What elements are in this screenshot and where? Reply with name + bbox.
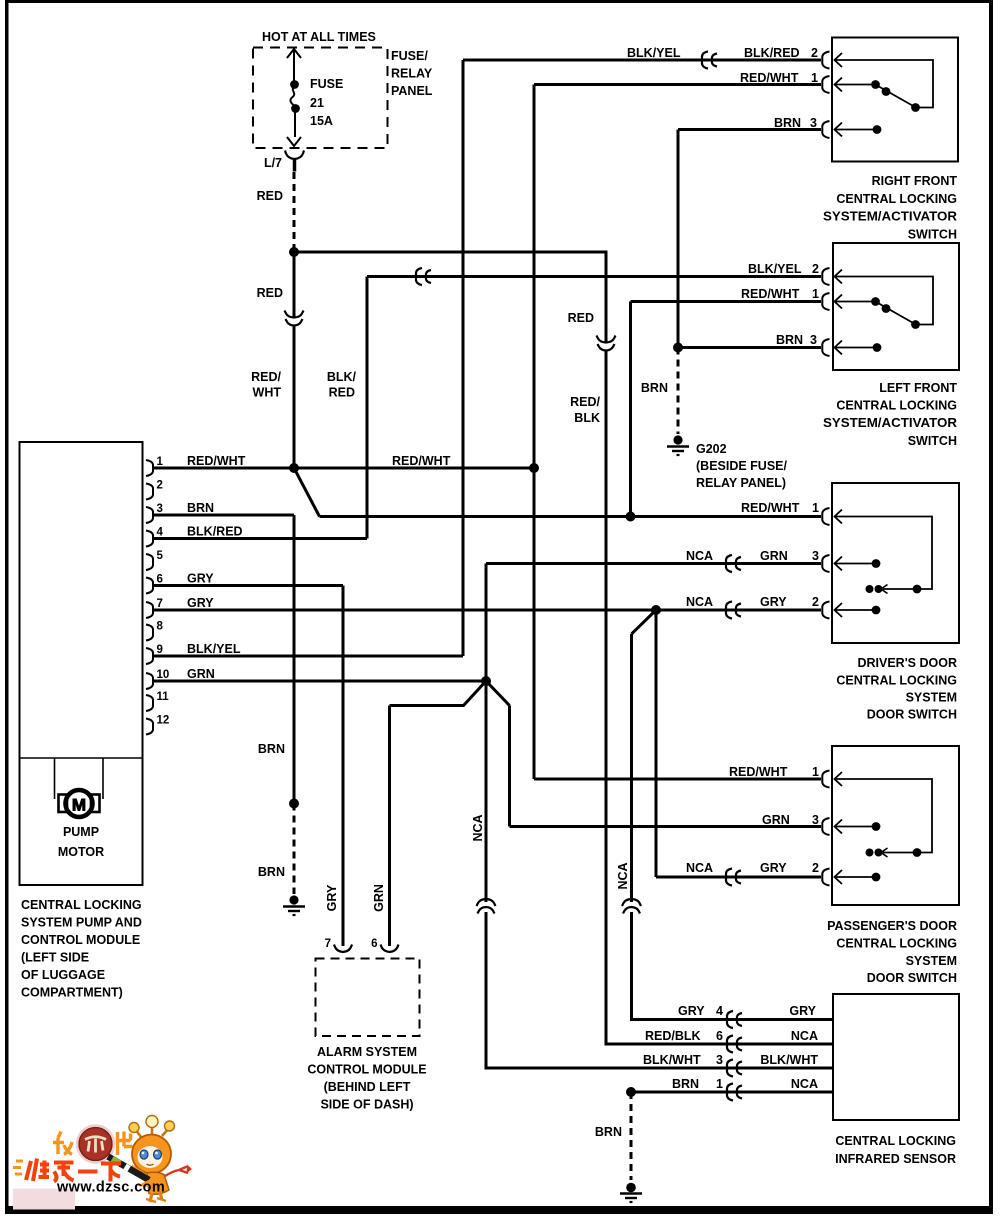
svg-text:5: 5	[157, 550, 164, 562]
wire BRN dashed to sensor ground	[630, 1092, 633, 1180]
glyph zhao (find) orange strokes	[53, 1132, 72, 1155]
svg-text:BLK/: BLK/	[327, 370, 357, 384]
svg-text:RED/WHT: RED/WHT	[741, 287, 800, 301]
wire GRY pump pin6 horizontal	[152, 584, 343, 587]
wire BRN dashed to pump ground	[293, 804, 296, 895]
connector on RED vertical x294	[285, 311, 304, 326]
svg-text:2: 2	[812, 861, 819, 875]
svg-text:GRY: GRY	[678, 1004, 705, 1018]
svg-text:3: 3	[810, 116, 817, 130]
svg-text:RED/: RED/	[570, 395, 600, 409]
wire RED horizontal from junction to x606	[294, 251, 608, 254]
svg-text:LEFT FRONT: LEFT FRONT	[879, 381, 957, 395]
wire GRN diagonal down-left from pin10 junction	[390, 681, 487, 706]
svg-text:RED/WHT: RED/WHT	[740, 71, 799, 85]
svg-text:3: 3	[812, 813, 819, 827]
svg-text:CENTRAL LOCKING: CENTRAL LOCKING	[836, 937, 957, 951]
SWITCH PIN BRACKETS AND ARROWS	[822, 52, 842, 886]
svg-text:GRN: GRN	[372, 884, 386, 912]
pin 7 socket	[146, 602, 153, 618]
node BRN sensor ground junction	[626, 1087, 636, 1097]
wire GRY pump pin7 horizontal to driver's door pin2	[152, 609, 821, 612]
svg-text:FUSE: FUSE	[310, 77, 343, 91]
pin 6 socket	[146, 578, 153, 594]
wire RED/WHT vertical below connector to pin1 junction	[293, 326, 296, 468]
passenger pin 2 bracket and arrow	[822, 869, 829, 886]
svg-text:10: 10	[157, 669, 170, 681]
weiku yixia red characters	[26, 1159, 121, 1182]
wire NCA vertical x486 down to connector	[485, 681, 488, 902]
svg-text:BLK/YEL: BLK/YEL	[187, 642, 241, 656]
pin 9 socket	[146, 648, 153, 664]
svg-text:GRN: GRN	[187, 667, 215, 681]
svg-text:PANEL: PANEL	[391, 84, 433, 98]
connector on GRY sensor wire	[727, 1011, 742, 1028]
wire GRN vertical x486 up to driver's door pin3 line	[485, 564, 488, 682]
ground sensor BRN	[620, 1183, 642, 1202]
pin 2 socket	[146, 484, 153, 500]
node GRY junction	[651, 605, 661, 615]
wire diagonal RED/WHT junction to driver's door line	[294, 468, 320, 517]
svg-text:4: 4	[716, 1004, 723, 1018]
wire RED/WHT vertical x534 right-front pin1 down to passenger pin1	[533, 85, 536, 780]
wire GRY vertical x343 to alarm pin7	[342, 586, 345, 947]
node BRN G202 junction	[673, 343, 683, 353]
pin 5 socket	[146, 554, 153, 570]
svg-text:BRN: BRN	[258, 742, 285, 756]
connector L/7 cup	[285, 151, 304, 172]
svg-text:NCA: NCA	[686, 549, 713, 563]
wire BLK/YEL vertical x463	[462, 60, 465, 656]
svg-text:FUSE/: FUSE/	[391, 49, 428, 63]
wire RED vertical x606 down to connector	[605, 252, 608, 343]
svg-text:RED/WHT: RED/WHT	[729, 765, 788, 779]
connector on BRN sensor wire	[727, 1084, 742, 1101]
wire GRN pump pin10 horizontal	[152, 680, 486, 683]
wire GRN horizontal driver's door pin3	[486, 562, 821, 565]
PUMP MOTOR symbol M1	[55, 758, 104, 817]
wire GRY vertical x631 below connector to sensor pin4	[632, 912, 834, 1020]
svg-text:4: 4	[157, 527, 164, 539]
connector cup alarm pin 6	[381, 945, 399, 953]
svg-text:NCA: NCA	[791, 1029, 818, 1043]
wire BLK/WHT vertical x486 below connector to sensor pin3	[486, 912, 833, 1068]
svg-text:DRIVER'S DOOR: DRIVER'S DOOR	[857, 656, 957, 670]
wire pump pin1 RED/WHT horizontal	[152, 467, 534, 470]
svg-text:RED: RED	[257, 189, 283, 203]
pin 8 socket	[146, 625, 153, 641]
svg-text:GRY: GRY	[325, 884, 339, 911]
FUSE 21 15A symbol	[287, 49, 301, 146]
svg-text:NCA: NCA	[686, 595, 713, 609]
svg-text:BLK/RED: BLK/RED	[744, 46, 800, 60]
svg-text:RED/WHT: RED/WHT	[741, 501, 800, 515]
svg-text:CENTRAL LOCKING: CENTRAL LOCKING	[836, 192, 957, 206]
svg-text:CENTRAL LOCKING: CENTRAL LOCKING	[21, 898, 142, 912]
svg-text:ALARM SYSTEM: ALARM SYSTEM	[317, 1045, 417, 1059]
node BRN pump ground junction	[289, 799, 299, 809]
wire BLK/YEL pump pin9 horizontal	[152, 655, 463, 658]
pin 3 socket	[146, 507, 153, 523]
right front switch internal wiper circuit	[835, 60, 933, 134]
pin 4 socket	[146, 531, 153, 547]
svg-text:1: 1	[812, 501, 819, 515]
svg-text:OF LUGGAGE: OF LUGGAGE	[21, 968, 105, 982]
svg-text:7: 7	[157, 598, 163, 610]
wire BRN vertical x678	[677, 130, 680, 348]
magnifier with xin glyph	[79, 1128, 112, 1161]
right front pin 2 bracket and arrow	[822, 52, 829, 69]
svg-text:G202: G202	[696, 442, 727, 456]
svg-text:1: 1	[811, 71, 818, 85]
svg-text:BRN: BRN	[641, 381, 668, 395]
connector on RED vertical x606	[597, 336, 616, 351]
GROUND SYMBOLS	[283, 435, 689, 1202]
central locking infrared sensor box U5	[833, 994, 959, 1120]
driver's door switch internal contacts	[835, 517, 932, 615]
wire GRN diagonal down-right from pin10 junction	[486, 681, 510, 706]
ground pump BRN	[283, 895, 305, 915]
connector on BLK/YEL top wire	[702, 52, 717, 69]
wire RED/WHT horizontal to driver's door pin1	[320, 515, 822, 518]
svg-text:(LEFT SIDE: (LEFT SIDE	[21, 951, 89, 965]
svg-text:CENTRAL LOCKING: CENTRAL LOCKING	[836, 399, 957, 413]
wire GRN vertical x509 to passenger pin3	[508, 706, 511, 827]
pin 10 socket	[146, 673, 153, 689]
svg-text:BLK/WHT: BLK/WHT	[643, 1053, 701, 1067]
svg-text:PASSENGER'S DOOR: PASSENGER'S DOOR	[827, 919, 957, 933]
driver's door pin 1 bracket and arrow	[822, 508, 829, 525]
svg-text:DOOR SWITCH: DOOR SWITCH	[867, 708, 957, 722]
wire BRN vertical x294 down	[293, 515, 296, 804]
svg-text:DOOR SWITCH: DOOR SWITCH	[867, 971, 957, 985]
svg-text:RELAY: RELAY	[391, 67, 433, 81]
wire BLK/RED pump pin4 horizontal	[152, 537, 367, 540]
svg-text:BLK/YEL: BLK/YEL	[627, 46, 681, 60]
svg-text:GRN: GRN	[760, 549, 788, 563]
svg-text:3: 3	[716, 1053, 723, 1067]
connector on NCA vertical x631	[622, 899, 641, 914]
ground G202	[667, 435, 689, 455]
wire BLK/YEL horizontal to left-front pin2	[367, 275, 821, 278]
wire BRN dashed to ground G202	[677, 348, 680, 435]
node RED/WHT x630 junction	[626, 512, 636, 522]
right front pin 3 bracket and arrow	[822, 121, 829, 138]
svg-text:BRN: BRN	[672, 1077, 699, 1091]
svg-text:WHT: WHT	[253, 386, 282, 400]
left front pin 3 bracket and arrow	[822, 339, 829, 356]
wire RED/WHT vertical x630 left-front pin1	[629, 302, 632, 517]
wire RED/BLK vertical x606 to sensor pin6	[606, 351, 833, 1044]
svg-text:BLK/YEL: BLK/YEL	[748, 262, 802, 276]
svg-text:www.dzsc.com: www.dzsc.com	[56, 1180, 165, 1196]
pin 11 socket	[146, 695, 153, 711]
svg-text:SIDE OF DASH): SIDE OF DASH)	[320, 1098, 413, 1112]
wire RED dashed from fuse L/7 down	[293, 172, 296, 250]
svg-text:GRY: GRY	[187, 572, 214, 586]
left front pin 2 bracket and arrow	[822, 268, 829, 285]
svg-text:21: 21	[310, 96, 324, 110]
svg-text:11: 11	[157, 691, 170, 703]
svg-text:2: 2	[812, 262, 819, 276]
svg-text:GRY: GRY	[187, 596, 214, 610]
driver's door switch box U3	[832, 483, 959, 643]
svg-text:SYSTEM: SYSTEM	[906, 954, 957, 968]
svg-text:6: 6	[716, 1029, 723, 1043]
svg-text:(BEHIND LEFT: (BEHIND LEFT	[324, 1080, 411, 1094]
svg-text:INFRARED SENSOR: INFRARED SENSOR	[835, 1152, 956, 1166]
passenger's door switch internal contacts	[835, 779, 932, 881]
node GRN pin10 junction	[481, 676, 491, 686]
connector on RED/BLK sensor wire	[727, 1036, 742, 1053]
svg-text:BLK/WHT: BLK/WHT	[760, 1053, 818, 1067]
wire RED/WHT horizontal right-front pin1	[534, 83, 821, 86]
left front switch internal wiper circuit	[835, 277, 933, 352]
svg-text:SYSTEM/ACTIVATOR: SYSTEM/ACTIVATOR	[823, 210, 957, 224]
svg-text:15A: 15A	[310, 114, 333, 128]
INLINE CONNECTORS	[285, 52, 743, 1101]
connector on BLK/WHT sensor wire	[727, 1060, 742, 1077]
driver's door pin 2 bracket and arrow	[822, 602, 829, 619]
wire RED/WHT horizontal left-front pin1	[631, 300, 822, 303]
svg-text:1: 1	[157, 456, 164, 468]
svg-text:3: 3	[812, 549, 819, 563]
svg-text:1: 1	[812, 287, 819, 301]
svg-text:CENTRAL LOCKING: CENTRAL LOCKING	[835, 1134, 956, 1148]
svg-text:CONTROL MODULE: CONTROL MODULE	[307, 1063, 426, 1077]
pump and control module box U6	[20, 442, 143, 885]
svg-text:RED: RED	[568, 311, 594, 325]
mascot robot	[129, 1116, 192, 1203]
wire BRN sensor pin1 horizontal	[631, 1091, 833, 1094]
alarm system control module dashed box	[316, 959, 420, 1037]
svg-text:GRY: GRY	[760, 861, 787, 875]
node RED/WHT x534 junction	[529, 463, 539, 473]
pin 12 socket	[146, 719, 153, 735]
svg-text:2: 2	[812, 595, 819, 609]
connector on BLK/RED to BLK/YEL wire	[416, 268, 431, 285]
svg-text:3: 3	[157, 503, 163, 515]
right front switch box U1	[832, 38, 958, 162]
svg-text:7: 7	[325, 938, 331, 950]
svg-text:6: 6	[371, 938, 377, 950]
svg-text:BRN: BRN	[774, 116, 801, 130]
svg-text:RELAY PANEL): RELAY PANEL)	[696, 476, 786, 490]
svg-text:NCA: NCA	[471, 814, 485, 841]
wire GRY vertical x656 down to passenger pin2	[655, 610, 658, 877]
WATERMARK dzsc.com logo	[13, 1116, 192, 1210]
connector cup alarm pin 7	[334, 945, 352, 953]
svg-text:RED: RED	[329, 386, 355, 400]
wire GRY diagonal from junction to x631	[632, 610, 657, 634]
left front switch box U2	[833, 243, 959, 370]
svg-text:2: 2	[811, 46, 818, 60]
connector on NCA vertical x486	[477, 899, 496, 914]
svg-text:MOTOR: MOTOR	[58, 845, 104, 859]
svg-text:SYSTEM PUMP AND: SYSTEM PUMP AND	[21, 916, 142, 930]
svg-text:RED/WHT: RED/WHT	[392, 454, 451, 468]
wire BRN right-front pin3 horizontal	[678, 128, 821, 131]
passenger pin 1 bracket and arrow	[822, 771, 829, 788]
svg-text:L/7: L/7	[264, 156, 282, 170]
svg-text:RED/BLK: RED/BLK	[645, 1029, 701, 1043]
node RED/WHT pin1 junction	[289, 463, 299, 473]
svg-text:COMPARTMENT): COMPARTMENT)	[21, 986, 123, 1000]
svg-text:9: 9	[157, 644, 163, 656]
svg-text:SWITCH: SWITCH	[908, 228, 957, 242]
svg-text:12: 12	[157, 715, 170, 727]
svg-text:GRN: GRN	[762, 813, 790, 827]
fuse down arrow	[287, 137, 301, 146]
svg-text:HOT AT ALL TIMES: HOT AT ALL TIMES	[262, 30, 376, 44]
svg-text:SYSTEM/ACTIVATOR: SYSTEM/ACTIVATOR	[823, 416, 957, 430]
svg-text:6: 6	[157, 574, 163, 586]
svg-text:RED/WHT: RED/WHT	[187, 454, 246, 468]
wire RED vertical from dot to connector	[293, 252, 296, 318]
svg-text:NCA: NCA	[686, 861, 713, 875]
wire GRN vertical x389 to alarm pin6	[388, 706, 391, 947]
svg-text:BRN: BRN	[187, 501, 214, 515]
pump module divider line	[20, 757, 143, 759]
left front pin 1 bracket and arrow	[822, 293, 829, 310]
SWITCH INTERNALS	[835, 60, 933, 881]
pin 1 socket	[146, 460, 153, 476]
magnifier handle / telescope	[108, 1157, 149, 1181]
svg-text:NCA: NCA	[791, 1077, 818, 1091]
connector on NCA GRY passenger wire	[726, 869, 741, 886]
svg-text:1: 1	[716, 1077, 723, 1091]
fuse element	[291, 81, 298, 88]
svg-text:GRY: GRY	[760, 595, 787, 609]
svg-text:CONTROL MODULE: CONTROL MODULE	[21, 933, 140, 947]
fuse/relay panel dashed box	[253, 48, 388, 149]
svg-text:BRN: BRN	[595, 1125, 622, 1139]
node RED tap junction	[289, 247, 299, 257]
svg-text:CENTRAL LOCKING: CENTRAL LOCKING	[836, 674, 957, 688]
glyph pian (chip) orange strokes	[118, 1132, 133, 1156]
svg-text:NCA: NCA	[616, 862, 630, 889]
wire GRN horizontal passenger pin3	[510, 825, 822, 828]
svg-text:BRN: BRN	[776, 333, 803, 347]
svg-text:BLK: BLK	[574, 411, 600, 425]
speed dashes	[13, 1161, 23, 1174]
svg-text:BLK/RED: BLK/RED	[187, 525, 243, 539]
svg-text:2: 2	[157, 480, 163, 492]
driver's door pin 3 bracket and arrow	[822, 555, 829, 572]
wire BRN horizontal to left-front pin3	[678, 346, 821, 349]
wire BLK/RED vertical x367	[366, 277, 369, 539]
wire BLK/YEL-BLK/RED horizontal to right-front pin2	[463, 59, 821, 62]
svg-text:(BESIDE FUSE/: (BESIDE FUSE/	[696, 459, 788, 473]
svg-text:3: 3	[810, 333, 817, 347]
passenger's door switch box U4	[832, 746, 959, 905]
svg-text:1: 1	[812, 765, 819, 779]
right front pin 1 bracket and arrow	[822, 76, 829, 93]
passenger pin 3 bracket and arrow	[822, 818, 829, 835]
PIN SOCKETS pump side	[146, 460, 153, 735]
wire BRN pump pin3 horizontal	[152, 514, 294, 517]
pink strip bottom left	[13, 1189, 75, 1210]
svg-text:RIGHT FRONT: RIGHT FRONT	[872, 174, 958, 188]
fuse up arrow	[287, 49, 301, 58]
connector on NCA GRN driver wire	[726, 555, 741, 572]
connector on NCA GRY driver wire	[726, 602, 741, 619]
svg-text:8: 8	[157, 621, 164, 633]
svg-text:RED: RED	[257, 286, 283, 300]
svg-text:BRN: BRN	[258, 865, 285, 879]
wire NCA vertical x631 down to sensor connector	[630, 634, 633, 902]
wire GRY horizontal passenger pin2	[656, 876, 821, 879]
svg-text:RED/: RED/	[251, 370, 281, 384]
svg-text:SYSTEM: SYSTEM	[906, 691, 957, 705]
svg-text:PUMP: PUMP	[63, 825, 99, 839]
svg-text:SWITCH: SWITCH	[908, 434, 957, 448]
svg-text:GRY: GRY	[789, 1004, 816, 1018]
svg-text:M: M	[72, 796, 86, 815]
wire RED/WHT horizontal passenger pin1	[534, 778, 821, 781]
